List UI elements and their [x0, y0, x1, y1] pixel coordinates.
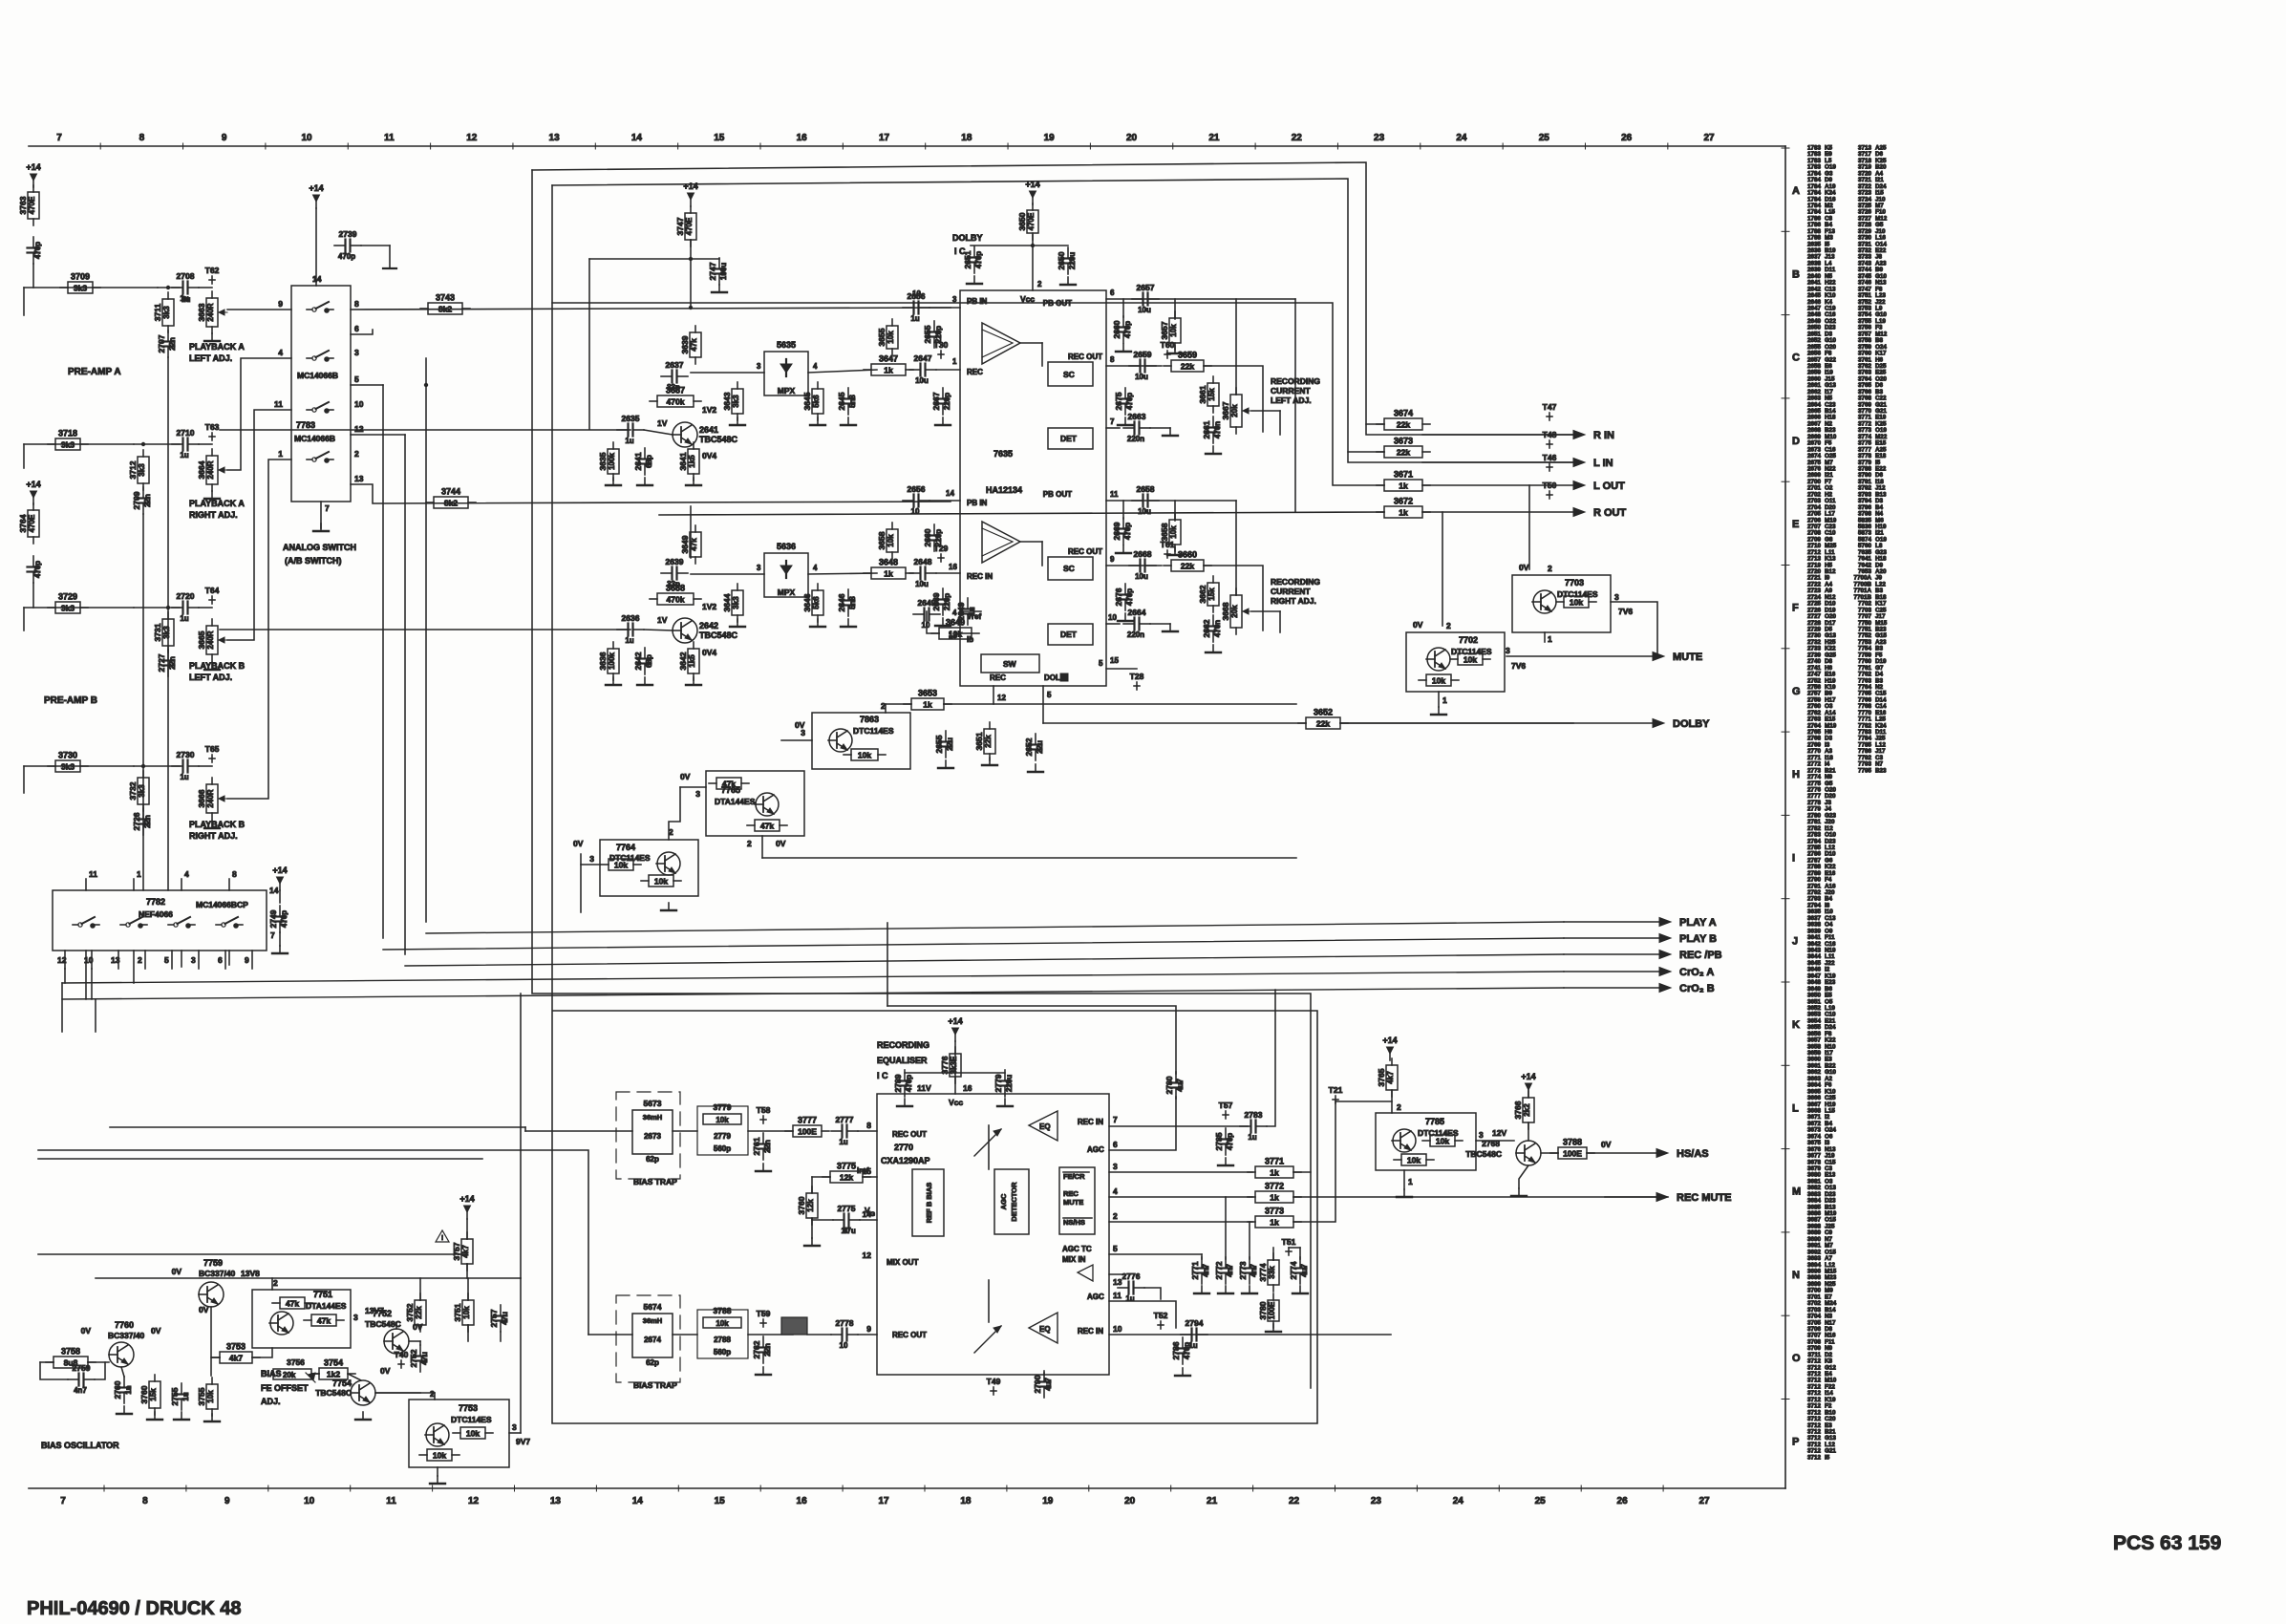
- pot 3668 wiper wire: [1251, 610, 1280, 612]
- resistor r7753a: [453, 1427, 493, 1439]
- ground: [841, 417, 856, 425]
- wire: [860, 1219, 877, 1221]
- svg-text:RECORDING: RECORDING: [1271, 577, 1320, 587]
- net REC MUTE: [1605, 1192, 1731, 1204]
- wire: [1109, 1171, 1252, 1173]
- svg-text:470p: 470p: [1123, 523, 1132, 540]
- resistor 3649b: [931, 618, 979, 640]
- resistor 3755: [197, 1378, 218, 1416]
- svg-text:2: 2: [1548, 564, 1552, 573]
- svg-text:220p: 220p: [934, 326, 943, 343]
- svg-text:17: 17: [878, 1496, 889, 1506]
- capacitor 2773: [1238, 1257, 1258, 1284]
- svg-text:2675: 2675: [1114, 392, 1123, 410]
- svg-text:22k: 22k: [1316, 719, 1330, 729]
- svg-text:240R: 240R: [206, 789, 215, 807]
- svg-text:MC14066B: MC14066B: [294, 434, 335, 443]
- net MUTE: [1506, 652, 1702, 663]
- net HS/AS: [1587, 1148, 1709, 1160]
- svg-text:Iref: Iref: [857, 1166, 869, 1175]
- net PLAY B: [1564, 933, 1717, 945]
- ground: [1431, 707, 1446, 715]
- svg-text:5: 5: [1047, 691, 1052, 699]
- capacitor 2780: [1164, 1072, 1185, 1099]
- ground: [997, 1099, 1013, 1106]
- svg-text:10: 10: [301, 133, 312, 143]
- svg-text:4: 4: [952, 609, 957, 617]
- wire: [929, 500, 960, 502]
- pin 2 bottom: [144, 951, 146, 969]
- svg-text:1u: 1u: [625, 636, 633, 645]
- wire: [1041, 542, 1043, 566]
- resistor r7785: [1422, 1135, 1463, 1146]
- test point T21: [1329, 1085, 1343, 1103]
- svg-text:BIAS OSCILLATOR: BIAS OSCILLATOR: [41, 1441, 119, 1450]
- svg-text:1V: 1V: [657, 615, 668, 625]
- svg-text:560p: 560p: [714, 1348, 731, 1357]
- wire: [434, 1393, 436, 1400]
- svg-text:ANALOG SWITCH: ANALOG SWITCH: [283, 543, 356, 552]
- svg-text:8: 8: [354, 299, 359, 309]
- test point T58: [757, 1105, 771, 1123]
- capacitor 2656: [903, 291, 929, 323]
- cap 2739 return bar: [383, 267, 396, 269]
- svg-text:5636: 5636: [777, 542, 796, 551]
- wire: [761, 836, 763, 858]
- svg-text:47u: 47u: [420, 1352, 429, 1365]
- ground: [810, 417, 825, 425]
- wire: [1403, 1170, 1405, 1189]
- wire: [580, 865, 582, 912]
- resistor 3754: [311, 1358, 355, 1380]
- test point T65: [205, 744, 220, 762]
- agc pot arrow 2: [974, 1326, 1001, 1353]
- svg-text:G: G: [1792, 686, 1801, 697]
- svg-text:6: 6: [1113, 1140, 1118, 1149]
- svg-text:47k: 47k: [286, 1299, 299, 1309]
- svg-text:19: 19: [1044, 133, 1056, 143]
- filter 5636: [764, 553, 808, 597]
- wire: [23, 608, 25, 630]
- svg-text:8k2: 8k2: [438, 305, 452, 314]
- wire: [1299, 1248, 1301, 1259]
- svg-text:1u: 1u: [1188, 1341, 1197, 1350]
- supply +14: [1382, 1036, 1397, 1060]
- border top ruler: [29, 145, 1785, 147]
- test point T57: [1219, 1100, 1233, 1119]
- supply +14: [272, 865, 287, 890]
- pin 3 bottom: [198, 951, 200, 969]
- wire: [1235, 501, 1237, 595]
- ground: [1060, 277, 1076, 285]
- svg-text:+14: +14: [26, 162, 40, 172]
- svg-text:2770: 2770: [894, 1143, 913, 1152]
- wire: [1106, 365, 1162, 367]
- wire: [680, 786, 706, 788]
- svg-text:470k: 470k: [667, 595, 685, 605]
- svg-text:3: 3: [512, 1422, 517, 1432]
- svg-text:2645: 2645: [837, 392, 846, 410]
- svg-text:1n: 1n: [124, 1385, 133, 1394]
- svg-text:DETECTOR: DETECTOR: [1010, 1182, 1018, 1222]
- resistor 3774: [1258, 1253, 1279, 1292]
- svg-text:68p: 68p: [645, 455, 653, 468]
- test point T50: [1543, 481, 1557, 499]
- svg-text:1k: 1k: [1399, 508, 1408, 518]
- resistor 3766: [1513, 1091, 1534, 1129]
- svg-text:REC OUT: REC OUT: [892, 1331, 927, 1339]
- potentiometer 3667: [1221, 388, 1251, 434]
- svg-text:2656: 2656: [908, 484, 926, 494]
- wire: [1294, 299, 1296, 512]
- svg-text:10k: 10k: [1463, 655, 1477, 665]
- svg-text:3646: 3646: [802, 593, 812, 611]
- wire L OUT feed: [552, 303, 1384, 485]
- svg-text:REC IN: REC IN: [967, 572, 993, 581]
- wire: [38, 1158, 482, 1160]
- svg-text:PHIL-04690 / DRUCK 48: PHIL-04690 / DRUCK 48: [27, 1598, 242, 1619]
- wire: [1106, 668, 1137, 670]
- svg-text:10: 10: [354, 399, 364, 409]
- svg-text:4: 4: [278, 348, 283, 357]
- rc pair 3789: [697, 1310, 748, 1358]
- wire: [863, 1176, 877, 1178]
- svg-text:3763: 3763: [18, 196, 28, 214]
- svg-text:22n: 22n: [168, 337, 177, 351]
- svg-text:13: 13: [354, 474, 364, 483]
- wire: [23, 288, 25, 315]
- svg-text:3k3: 3k3: [138, 463, 146, 477]
- svg-text:3718: 3718: [58, 429, 77, 438]
- svg-text:7V6: 7V6: [1511, 661, 1526, 671]
- svg-text:15: 15: [715, 1496, 726, 1506]
- capacitor 2655a: [923, 321, 943, 348]
- resistor 3743: [420, 293, 470, 315]
- ground: [897, 1099, 912, 1106]
- svg-text:RIGHT ADJ.: RIGHT ADJ.: [189, 831, 238, 841]
- svg-text:3747: 3747: [675, 217, 685, 235]
- wire: [95, 999, 96, 1032]
- resistor 3764: [18, 503, 39, 544]
- switch contact: [307, 452, 333, 463]
- svg-text:2: 2: [273, 1278, 278, 1288]
- svg-text:47u: 47u: [843, 1227, 856, 1235]
- junction: [689, 257, 693, 261]
- ground: [117, 1406, 132, 1414]
- wire: [32, 264, 34, 288]
- switch contact: [73, 917, 99, 929]
- capacitor 2656b: [903, 484, 929, 516]
- svg-text:10u: 10u: [915, 580, 929, 588]
- svg-text:47k: 47k: [722, 780, 736, 789]
- svg-text:2652: 2652: [1024, 737, 1034, 756]
- svg-text:L OUT: L OUT: [1593, 481, 1625, 492]
- wire: [1391, 1091, 1393, 1113]
- wire: [199, 765, 212, 767]
- resistor 3751: [453, 1293, 474, 1332]
- svg-text:3771: 3771: [1265, 1157, 1284, 1166]
- capacitor 2772: [1214, 1257, 1234, 1284]
- wire: [23, 444, 25, 468]
- potentiometer 3663: [197, 291, 227, 333]
- svg-text:3757: 3757: [452, 1242, 461, 1260]
- wire: [960, 610, 981, 612]
- wire: [1109, 1196, 1252, 1198]
- svg-text:0V4: 0V4: [702, 451, 716, 460]
- svg-text:EQ: EQ: [1039, 1122, 1051, 1131]
- svg-text:3k3: 3k3: [61, 440, 75, 450]
- svg-text:3709: 3709: [71, 272, 90, 282]
- pin 1 top: [133, 879, 135, 890]
- pin 7 stub: [320, 502, 322, 528]
- wire: [1366, 423, 1384, 425]
- wire: [61, 983, 63, 1032]
- wire: [96, 1277, 521, 1279]
- svg-text:3731: 3731: [153, 623, 162, 641]
- svg-text:T47: T47: [1543, 402, 1557, 412]
- wire: [95, 1362, 105, 1379]
- capacitor 2771: [1190, 1257, 1210, 1284]
- svg-text:+14: +14: [459, 1194, 474, 1204]
- svg-text:MUTE: MUTE: [1063, 1198, 1083, 1207]
- svg-text:1k: 1k: [884, 569, 893, 579]
- svg-text:3657: 3657: [1160, 321, 1169, 339]
- wire: [690, 506, 692, 558]
- wire: [1106, 500, 1236, 502]
- wire: [691, 258, 719, 260]
- svg-text:10k: 10k: [887, 534, 895, 547]
- wire: [1201, 1254, 1203, 1259]
- capacitor 2709: [132, 487, 152, 514]
- resistor 3711: [153, 292, 174, 332]
- svg-text:62p: 62p: [646, 1155, 659, 1164]
- wire: [1225, 1197, 1227, 1259]
- wire: [315, 208, 317, 286]
- supply +14: [1025, 180, 1039, 204]
- svg-text:3: 3: [191, 955, 196, 965]
- svg-text:B: B: [1792, 268, 1800, 280]
- svg-text:68p: 68p: [645, 654, 653, 668]
- wire: [110, 1126, 525, 1128]
- transistor 7753 box: [409, 1400, 509, 1467]
- svg-text:ADJ.: ADJ.: [261, 1397, 281, 1406]
- svg-text:R OUT: R OUT: [1593, 507, 1627, 519]
- wire: [227, 410, 291, 640]
- wire: [85, 951, 87, 999]
- wire: [395, 1323, 397, 1329]
- capacitor 2762: [752, 1336, 772, 1363]
- svg-text:2752: 2752: [409, 1349, 418, 1367]
- ground: [1397, 1189, 1412, 1197]
- wire: [134, 443, 180, 445]
- wire: [1541, 1152, 1558, 1154]
- svg-text:3668: 3668: [1221, 602, 1230, 620]
- svg-text:3664: 3664: [197, 460, 206, 479]
- svg-text:6: 6: [218, 955, 223, 965]
- svg-text:3650: 3650: [1017, 212, 1027, 230]
- svg-text:SC: SC: [1063, 370, 1075, 379]
- svg-text:5: 5: [1099, 659, 1103, 668]
- svg-text:2641: 2641: [633, 452, 643, 470]
- capacitor 2669b: [931, 588, 951, 615]
- svg-text:M: M: [1792, 1186, 1801, 1198]
- block SC 1: [1048, 362, 1093, 386]
- svg-text:2655: 2655: [923, 325, 932, 343]
- ground: [967, 276, 982, 284]
- svg-text:2642: 2642: [633, 652, 643, 670]
- wire: [211, 1357, 220, 1358]
- svg-text:1k5: 1k5: [688, 654, 696, 668]
- svg-text:36mH: 36mH: [643, 1113, 662, 1122]
- svg-text:3730: 3730: [58, 751, 77, 760]
- svg-text:HA12134: HA12134: [986, 485, 1022, 495]
- svg-text:PRE-AMP A: PRE-AMP A: [68, 367, 121, 377]
- svg-text:5k6: 5k6: [812, 395, 821, 408]
- resistor 3776: [940, 1047, 961, 1083]
- net DOLBY: [1340, 718, 1710, 730]
- svg-text:AGC: AGC: [999, 1193, 1008, 1209]
- svg-text:1k: 1k: [1270, 1193, 1279, 1203]
- svg-text:2: 2: [354, 449, 359, 459]
- svg-text:2726: 2726: [132, 812, 141, 830]
- bias trap 1 dashed box: [616, 1092, 680, 1179]
- svg-text:16: 16: [949, 563, 957, 571]
- svg-text:T51: T51: [1282, 1237, 1296, 1247]
- amp triangle 2: [982, 522, 1020, 563]
- resistor 3771: [1248, 1157, 1301, 1179]
- transistor 7702t: [1426, 648, 1450, 671]
- amp triangle 1: [982, 323, 1020, 364]
- svg-text:7751: 7751: [313, 1290, 332, 1299]
- svg-text:22: 22: [1292, 133, 1303, 143]
- capacitor 2669: [1112, 518, 1132, 545]
- svg-text:7783: 7783: [296, 420, 315, 430]
- svg-text:2661: 2661: [1202, 420, 1211, 438]
- svg-text:6: 6: [354, 324, 359, 333]
- transistor 7785t: [1392, 1129, 1416, 1152]
- svg-text:T65: T65: [205, 744, 220, 754]
- wire: [1032, 235, 1034, 290]
- wire: [1109, 1334, 1391, 1336]
- wire: [1528, 485, 1530, 569]
- svg-text:11: 11: [274, 399, 283, 409]
- svg-text:10k: 10k: [1169, 525, 1178, 539]
- switch contact: [216, 917, 243, 929]
- svg-text:3751: 3751: [453, 1303, 462, 1321]
- svg-text:2: 2: [138, 955, 142, 965]
- svg-text:3765: 3765: [1377, 1068, 1386, 1086]
- svg-text:25: 25: [1535, 1496, 1547, 1506]
- svg-text:4: 4: [813, 362, 818, 371]
- svg-text:O: O: [1792, 1353, 1801, 1364]
- wire: [252, 1348, 272, 1357]
- ground: [810, 619, 825, 627]
- svg-text:24: 24: [1453, 1496, 1464, 1506]
- wire: [971, 245, 1068, 246]
- wire: [88, 1361, 109, 1363]
- svg-text:3643: 3643: [722, 392, 732, 410]
- svg-text:3652: 3652: [1314, 708, 1333, 717]
- warning triangle: [436, 1230, 449, 1242]
- svg-text:25: 25: [1539, 133, 1550, 143]
- svg-text:3773: 3773: [1265, 1207, 1284, 1216]
- svg-text:3661: 3661: [1198, 385, 1207, 403]
- wire: [181, 951, 182, 967]
- svg-text:470E: 470E: [28, 514, 36, 532]
- svg-text:2727: 2727: [157, 653, 166, 672]
- svg-text:22k: 22k: [1181, 562, 1194, 571]
- capacitor 2785: [1214, 1128, 1234, 1155]
- capacitor 2646: [837, 589, 857, 616]
- resistor 3638: [650, 584, 701, 606]
- svg-text:2730: 2730: [177, 750, 195, 759]
- svg-text:2657: 2657: [1137, 283, 1155, 292]
- wire: [351, 434, 405, 436]
- svg-text:MIX IN: MIX IN: [1062, 1255, 1086, 1264]
- svg-text:PLAYBACK A: PLAYBACK A: [189, 499, 245, 508]
- wire: [348, 1374, 361, 1380]
- svg-text:2757: 2757: [489, 1309, 499, 1327]
- ground: [935, 417, 951, 425]
- svg-text:2779: 2779: [993, 1074, 1003, 1092]
- wire: [588, 259, 590, 429]
- svg-text:3k3: 3k3: [162, 626, 171, 639]
- ground: [935, 618, 951, 626]
- wire: [1174, 299, 1176, 319]
- wire: [811, 1219, 813, 1238]
- eq triangle 1: [1029, 1111, 1058, 1141]
- block DET 1: [1048, 428, 1093, 449]
- wire: [1293, 1196, 1668, 1198]
- ground: [1218, 1158, 1233, 1165]
- svg-text:33k: 33k: [1268, 1266, 1276, 1279]
- svg-text:C: C: [1792, 353, 1800, 364]
- svg-text:3671: 3671: [1394, 470, 1413, 480]
- svg-text:1u: 1u: [1248, 1133, 1256, 1142]
- svg-text:1k: 1k: [923, 700, 932, 710]
- resistor 3760: [139, 1375, 160, 1415]
- wire: [220, 629, 630, 630]
- wire: [781, 739, 812, 741]
- test point T62: [205, 266, 220, 284]
- svg-text:REC IN: REC IN: [1078, 1327, 1103, 1336]
- resistor 3767: [1550, 1138, 1594, 1160]
- svg-text:3744: 3744: [441, 487, 460, 497]
- pin 10 bottom: [91, 951, 93, 969]
- wire: [382, 385, 384, 938]
- wire: [936, 369, 960, 371]
- block REF B BIAS: [912, 1169, 944, 1236]
- test point T30: [934, 340, 949, 358]
- wire: [812, 1176, 830, 1178]
- ground: [938, 760, 953, 768]
- svg-text:2755: 2755: [170, 1387, 180, 1405]
- svg-text:15k: 15k: [1207, 388, 1216, 401]
- wire: [1442, 512, 1443, 626]
- svg-text:2667: 2667: [931, 392, 941, 410]
- ground: [147, 1412, 162, 1420]
- transistor 7703 box: [1512, 575, 1611, 632]
- resistor r7785b: [1394, 1154, 1434, 1165]
- wire: [199, 287, 212, 288]
- capacitor 2649b: [913, 598, 940, 630]
- svg-text:12k: 12k: [806, 1199, 815, 1212]
- wire: [227, 309, 291, 310]
- wire: [24, 765, 134, 767]
- supply +14: [459, 1194, 474, 1219]
- svg-text:2: 2: [1446, 621, 1451, 630]
- svg-text:2: 2: [1397, 1102, 1401, 1112]
